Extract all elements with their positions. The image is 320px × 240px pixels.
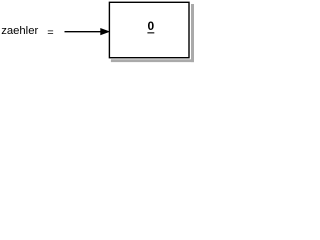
wire (arrow shaft) [65,31,102,33]
box shadow right bar [191,4,194,62]
svg-text:zaehler: zaehler [1,25,38,37]
background [0,0,195,65]
box shadow bottom bar [111,59,194,62]
svg-text:=: = [47,27,53,39]
svg-text:0: 0 [148,19,155,33]
value box [109,2,189,57]
arrowhead [100,28,110,35]
underline under 0 [147,32,154,33]
